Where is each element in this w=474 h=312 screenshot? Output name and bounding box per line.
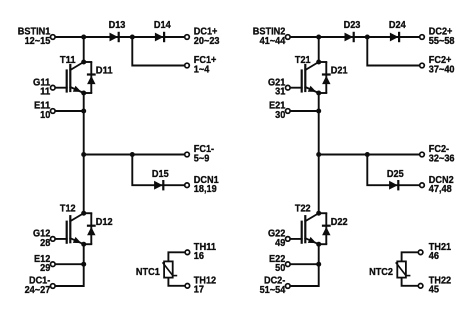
freewheel diode D12 [87,213,96,244]
wire FC1+ branch [132,37,187,66]
wire E12 sense [53,263,84,265]
diode D13 [110,32,119,42]
svg-text:12~15: 12~15 [25,35,51,47]
wire D22 top link [319,212,327,214]
label NTC1 [136,266,160,278]
terminal G21 (pin 31) [268,76,290,97]
label D11 [96,65,113,77]
terminal E11 (pin 10) [34,100,55,121]
svg-text:49: 49 [275,237,285,249]
junction T12 emitter node [81,242,86,247]
freewheel diode D21 [322,62,331,93]
svg-text:45: 45 [429,284,439,296]
svg-text:T11: T11 [60,54,76,66]
junction T22 collector node [316,211,321,216]
terminal BSTIN2 (pins 41~44) [253,26,290,47]
thermistor NTC2 [396,252,420,285]
wire D21 bottom link [319,92,327,94]
svg-text:37~40: 37~40 [429,63,455,75]
wire D11 top link [84,61,92,63]
wire DCN1 branch [132,155,187,186]
label T22 [295,203,311,215]
svg-text:31: 31 [275,86,285,98]
label D24 [389,19,406,31]
junction T11 emitter node [81,91,86,96]
terminal E12 (pin 29) [34,253,55,274]
terminal DC1- (pins 24~27) [25,275,56,296]
svg-text:D12: D12 [96,216,113,228]
svg-text:32~36: 32~36 [429,152,455,164]
freewheel diode D11 [87,62,96,93]
svg-text:NTC2: NTC2 [369,266,393,278]
terminal TH11 (pin 16) [185,241,216,262]
svg-text:T12: T12 [60,203,76,215]
svg-text:51~54: 51~54 [260,284,286,296]
terminal DC2- (pins 51~54) [260,275,291,296]
junction T11 collector node [81,60,86,65]
junction FC2+ tap [365,35,370,40]
IGBT T12 [53,213,84,246]
label D23 [344,19,361,31]
diode D23 [345,32,354,42]
svg-text:NTC1: NTC1 [136,266,160,278]
terminal DCN1 (pins 18,19) [185,174,219,195]
label D14 [154,19,171,31]
svg-text:D23: D23 [344,19,361,31]
wire D22 bottom link [319,243,327,245]
diode D15 [154,180,163,190]
terminal TH22 (pin 45) [418,275,451,296]
junction E12 tap [81,262,86,267]
junction E21 tap [316,109,321,114]
junction top bus / collector [316,35,321,40]
wire E22 sense [288,263,319,265]
terminal DCN2 (pins 47,48) [420,174,454,195]
terminal G22 (pin 49) [268,228,290,249]
svg-text:T22: T22 [295,203,311,215]
thermistor NTC1 [163,252,187,285]
freewheel diode D22 [322,213,331,244]
wire FC1- feed [84,154,187,156]
junction FC2- tap [316,152,321,157]
label D15 [152,168,169,180]
label D12 [96,216,113,228]
svg-text:29: 29 [40,262,50,274]
wire E21 sense [288,110,319,112]
label NTC2 [369,266,393,278]
terminal BSTIN1 (pins 12~15) [18,26,55,47]
wire D21 top link [319,61,327,63]
wire mid vertical [83,93,85,213]
svg-text:55~58: 55~58 [429,35,455,47]
svg-text:30: 30 [275,109,285,121]
diode D14 [155,32,164,42]
terminal G11 (pin 11) [33,76,55,97]
IGBT T22 [288,213,319,246]
wire D11 bottom link [84,92,92,94]
svg-text:20~23: 20~23 [194,35,220,47]
wire top bus [288,36,422,38]
svg-text:T21: T21 [295,54,311,66]
svg-text:5~9: 5~9 [194,152,210,164]
junction FC1+ tap [130,35,135,40]
svg-text:18,19: 18,19 [194,183,217,195]
junction FC1- tap [81,152,86,157]
label D22 [331,216,348,228]
diode D25 [389,180,398,190]
wire D12 top link [84,212,92,214]
junction T12 collector node [81,211,86,216]
wire DC2- leg [288,244,319,286]
terminal FC1+ (pins 1~4) [185,54,217,75]
svg-text:D11: D11 [96,65,113,77]
junction DCN2 tap [365,152,370,157]
svg-text:10: 10 [40,109,50,121]
svg-text:D25: D25 [387,168,404,180]
wire collector drop [318,37,320,62]
terminal E21 (pin 30) [269,100,290,121]
terminal TH12 (pin 17) [185,275,216,296]
IGBT T11 [53,62,84,95]
svg-text:24~27: 24~27 [25,284,51,296]
IGBT T21 [288,62,319,95]
svg-text:16: 16 [194,250,204,262]
svg-text:D24: D24 [389,19,406,31]
svg-text:28: 28 [40,237,50,249]
terminal G12 (pin 28) [33,228,55,249]
terminal TH21 (pin 46) [418,241,451,262]
svg-text:46: 46 [429,250,439,262]
terminal FC2- (pins 32~36) [420,143,455,164]
wire mid vertical [318,93,320,213]
label D25 [387,168,404,180]
svg-text:47,48: 47,48 [429,183,452,195]
terminal DC2+ (pins 55~58) [420,26,455,47]
junction T21 emitter node [316,91,321,96]
wire DCN2 branch [367,155,422,186]
svg-text:11: 11 [40,86,50,98]
wire D12 bottom link [84,243,92,245]
label D21 [331,65,348,77]
label T11 [60,54,76,66]
svg-text:D15: D15 [152,168,169,180]
junction T21 collector node [316,60,321,65]
terminal DC1+ (pins 20~23) [185,26,220,47]
junction E11 tap [81,109,86,114]
wire DC1- leg [53,244,84,286]
label T21 [295,54,311,66]
wire top bus [53,36,187,38]
svg-text:D22: D22 [331,216,348,228]
svg-text:50: 50 [275,262,285,274]
junction T22 emitter node [316,242,321,247]
wire E11 sense [53,110,84,112]
svg-text:D21: D21 [331,65,348,77]
svg-text:1~4: 1~4 [194,63,210,75]
wire FC2- feed [319,154,422,156]
terminal FC1- (pins 5~9) [185,143,215,164]
wire FC2+ branch [367,37,422,66]
svg-text:D13: D13 [109,19,126,31]
svg-text:41~44: 41~44 [260,35,286,47]
terminal FC2+ (pins 37~40) [420,54,455,75]
junction top bus / collector [81,35,86,40]
svg-text:D14: D14 [154,19,171,31]
junction DCN1 tap [130,152,135,157]
diode D24 [390,32,399,42]
junction E22 tap [316,262,321,267]
label D13 [109,19,126,31]
label T12 [60,203,76,215]
svg-text:17: 17 [194,284,204,296]
terminal E22 (pin 50) [269,253,290,274]
wire collector drop [83,37,85,62]
